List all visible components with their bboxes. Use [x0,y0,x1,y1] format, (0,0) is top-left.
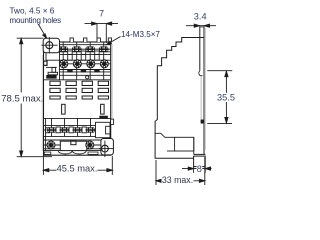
svg-text:8: 8 [197,164,202,174]
front view: top tabs [70,38,112,42]
svg-text:35.5: 35.5 [217,93,235,103]
label: Two, 4.5 x 6 mounting holes [10,6,62,24]
front view: screws row 4 (2 big rosettes) [47,141,95,150]
dimension 45.5 max (bottom of front view) [43,155,112,175]
svg-text:7: 7 [99,9,104,19]
front view: middle label rectangles row C [50,96,109,99]
front view: small round hole below row 2 [86,76,89,79]
front view: middle label rectangles row A [50,81,109,85]
shadow line left of front body [41,55,43,151]
side view: DIN rail back plate [199,26,204,154]
leader line to top-left mounting hole [39,25,47,39]
svg-text:mounting holes: mounting holes [10,16,62,25]
front view: middle label rectangles row B [50,88,109,92]
dimension text 33 max. [162,175,194,185]
side view: body profile [155,38,204,159]
front view: screws row 1 (4 pair-screws) [58,46,108,52]
dimension 78.5 max (left) [17,38,52,157]
front view: body outline [44,42,111,155]
svg-text:45.5 max.: 45.5 max. [57,163,98,173]
front view: bottom terminal block lines [44,118,111,150]
svg-text:3.4: 3.4 [194,12,207,22]
front view: top-left mounting ear [43,38,59,53]
front view: bottom-right mounting hole [99,141,113,158]
dimension 33 max (bottom of side view) [156,157,205,185]
dimension 35.5 (right of side view) [207,71,232,124]
front view: top-left mounting hole [41,37,57,53]
svg-text:Two, 4.5 × 6: Two, 4.5 × 6 [10,6,55,15]
shadow line right of front body [111,44,113,118]
svg-text:14-M3.5×7: 14-M3.5×7 [121,30,160,39]
leader line for 14-M3.5x7 [107,37,121,45]
front view: small right-side lever rect [111,119,114,124]
side view: rear foot (8 mm step) [194,154,206,166]
dimension 7 (terminal pitch) [85,22,119,43]
front view: bottom-right mounting ear [101,139,114,155]
dimension 8 (rear foot width) [182,165,212,173]
side view: relay clip internal details [155,133,194,154]
svg-text:33 max.: 33 max. [162,175,193,185]
front view: vertical slots [62,104,105,114]
front view: upper terminal block interior lines [44,42,111,80]
front view: bottom scallop arcs [58,151,86,154]
front view: bottom skirt slots [44,152,98,154]
front view: bottom white wire-entry box [60,141,87,150]
shadow line right of rail [205,28,207,150]
svg-text:78.5 max.: 78.5 max. [1,94,43,105]
front view: screws row 3 (4 pair-screws) [47,127,96,133]
dimension 3.4 (top of side view) [186,24,216,27]
front view: screws row 2 (4 big rosettes) [59,59,109,68]
front view: bottom-right hold-down component [96,116,111,138]
dimension text 45.5 max. [57,163,98,173]
front view: left latch details [44,53,60,78]
